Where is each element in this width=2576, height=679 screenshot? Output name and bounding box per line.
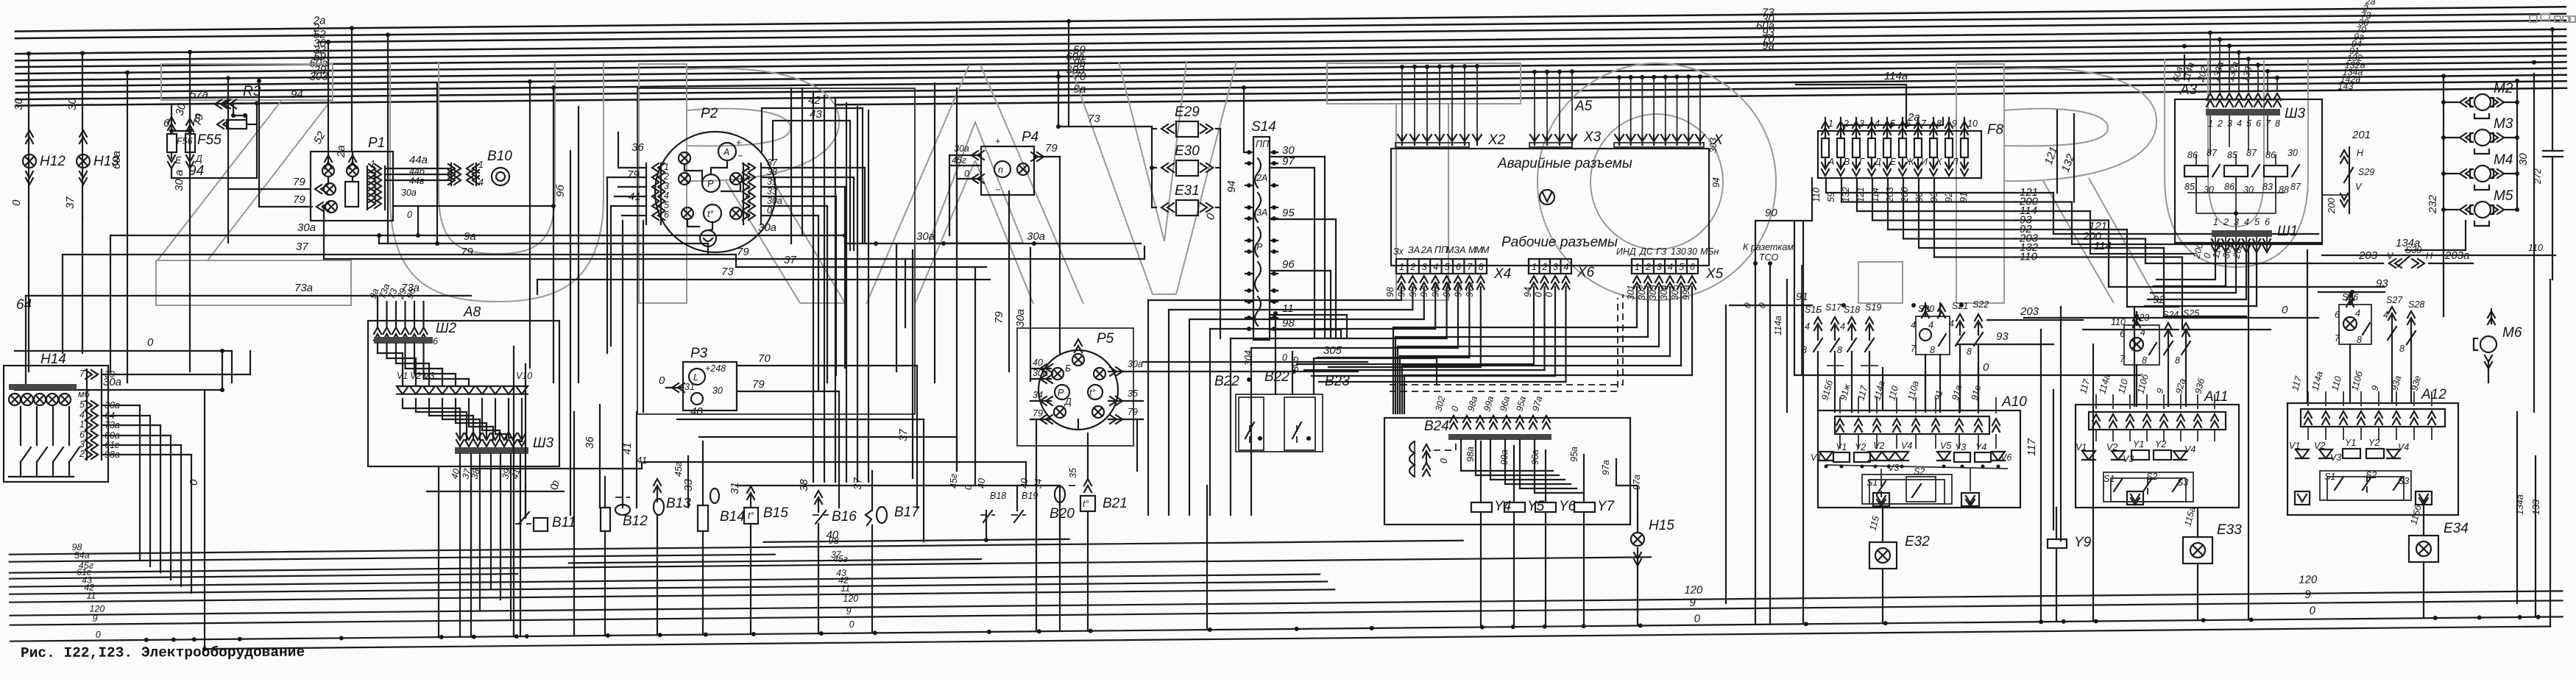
bus wire 70 xyxy=(16,68,2566,93)
svg-text:V1: V1 xyxy=(2289,441,2300,451)
svg-text:30а: 30а xyxy=(916,230,935,243)
svg-text:9а: 9а xyxy=(464,230,476,243)
svg-text:S27: S27 xyxy=(2386,295,2403,305)
switch R3 xyxy=(215,100,227,109)
svg-text:130: 130 xyxy=(1671,246,1686,257)
A10 switches S1 S2 xyxy=(1877,481,1886,494)
svg-text:К: К xyxy=(1936,157,1942,167)
svg-text:4: 4 xyxy=(478,177,484,188)
svg-text:t°: t° xyxy=(1083,499,1089,509)
svg-text:4: 4 xyxy=(1928,320,1933,330)
bottom bus wire 61г xyxy=(10,574,517,579)
svg-text:143: 143 xyxy=(2338,81,2353,91)
svg-text:99а: 99а xyxy=(1681,285,1691,300)
svg-text:133: 133 xyxy=(2531,500,2541,515)
svg-text:8: 8 xyxy=(2275,118,2280,129)
svg-text:F55: F55 xyxy=(197,132,222,148)
svg-text:79: 79 xyxy=(1033,408,1043,419)
svg-text:А: А xyxy=(723,147,729,157)
wire H12 drop xyxy=(28,54,29,221)
svg-text:n: n xyxy=(998,165,1003,175)
svg-text:S19: S19 xyxy=(1865,302,1881,313)
svg-text:В19: В19 xyxy=(1022,491,1038,501)
svg-text:8: 8 xyxy=(1967,346,1972,357)
svg-text:S18: S18 xyxy=(1844,305,1860,315)
svg-text:V3: V3 xyxy=(2123,454,2134,464)
svg-text:6: 6 xyxy=(1906,118,1911,129)
switch S27 xyxy=(2388,307,2396,320)
wire 0 left xyxy=(15,350,232,352)
svg-text:S2: S2 xyxy=(1914,466,1925,477)
svg-text:6: 6 xyxy=(1456,262,1461,272)
svg-text:Н14: Н14 xyxy=(40,352,66,367)
bottom bus wire 45г xyxy=(10,557,1651,572)
svg-text:40: 40 xyxy=(1033,358,1043,368)
svg-text:Y1: Y1 xyxy=(1836,442,1847,452)
bottom bus wire 40 xyxy=(764,539,1069,542)
bus wire 91 xyxy=(837,88,2566,105)
svg-text:0: 0 xyxy=(2282,304,2288,316)
wire 110 right xyxy=(2322,255,2555,256)
svg-text:3: 3 xyxy=(79,439,85,449)
svg-text:0: 0 xyxy=(548,483,561,490)
svg-text:Ш3: Ш3 xyxy=(2285,106,2305,121)
svg-text:0: 0 xyxy=(767,205,772,216)
svg-text:95а: 95а xyxy=(1569,447,1579,462)
dashed loom to B24 xyxy=(1390,294,1623,385)
bus wire 52 xyxy=(319,21,2566,42)
svg-text:70: 70 xyxy=(758,352,771,365)
wire 91 line xyxy=(1730,305,1812,306)
wire 30a long xyxy=(110,235,845,236)
svg-text:В12: В12 xyxy=(623,513,648,529)
svg-text:Y4: Y4 xyxy=(1975,442,1986,452)
A12 connector bar xyxy=(2301,409,2445,427)
svg-text:МБн: МБн xyxy=(1700,246,1719,257)
wires 0 0 verticals xyxy=(1755,221,1756,625)
P2 wiring maze xyxy=(711,160,727,174)
svg-text:301: 301 xyxy=(1626,285,1636,300)
wire 37 left vertical xyxy=(82,217,83,353)
svg-text:9а: 9а xyxy=(1762,40,1774,52)
wire 30a left vertical xyxy=(28,217,29,372)
svg-text:30а: 30а xyxy=(1128,359,1143,369)
svg-text:0: 0 xyxy=(188,479,200,486)
svg-text:44б: 44б xyxy=(409,166,425,177)
svg-text:303: 303 xyxy=(1648,285,1658,300)
svg-text:4: 4 xyxy=(2244,217,2249,227)
svg-text:83: 83 xyxy=(2262,182,2273,192)
wire 2a drop xyxy=(351,28,353,152)
wire 0 long xyxy=(1794,374,2140,376)
svg-text:97: 97 xyxy=(1282,155,1295,168)
svg-text:2: 2 xyxy=(1843,118,1849,129)
connector Sh3 top xyxy=(2206,109,2280,115)
watermark letter R second xyxy=(1956,64,2004,303)
svg-text:ТСО: ТСО xyxy=(1759,252,1779,263)
svg-text:120: 120 xyxy=(89,603,105,614)
svg-text:36: 36 xyxy=(631,141,644,154)
svg-text:0: 0 xyxy=(1282,352,1287,363)
lamp E32 xyxy=(1882,506,1883,542)
wires below Sh3 xyxy=(459,454,461,637)
svg-text:Х6: Х6 xyxy=(1577,265,1595,280)
svg-text:30а: 30а xyxy=(1027,230,1045,243)
switch B14 xyxy=(698,505,708,531)
bus wire 59 xyxy=(15,43,2566,67)
wire bundle center verticals xyxy=(813,92,814,449)
svg-text:5: 5 xyxy=(1679,262,1684,272)
svg-text:98а: 98а xyxy=(1465,447,1476,462)
wire 79 long xyxy=(324,258,1144,260)
connector X2 pins xyxy=(1398,135,1406,145)
svg-text:Y3: Y3 xyxy=(1955,442,1966,452)
switch B11 xyxy=(515,523,531,525)
svg-text:37: 37 xyxy=(897,429,910,441)
svg-text:В22: В22 xyxy=(1264,369,1289,385)
svg-text:79: 79 xyxy=(293,176,305,188)
wire vertical x594 xyxy=(436,82,438,243)
svg-text:7: 7 xyxy=(1467,262,1473,272)
X4 fan wires xyxy=(1401,287,1402,300)
svg-text:73: 73 xyxy=(721,266,734,278)
B24 inner wires xyxy=(1460,440,1462,471)
ammeter A xyxy=(718,143,736,160)
svg-text:203: 203 xyxy=(1885,187,1895,203)
svg-text:30: 30 xyxy=(2287,148,2298,158)
connector X pins right xyxy=(1615,135,1624,145)
P2 lamps xyxy=(679,152,690,164)
svg-text:305: 305 xyxy=(1290,356,1301,372)
svg-text:МЗА: МЗА xyxy=(1446,245,1465,255)
svg-text:8: 8 xyxy=(1936,118,1942,129)
svg-text:Б: Б xyxy=(1065,363,1071,374)
svg-text:4: 4 xyxy=(1805,321,1810,332)
svg-text:Y1: Y1 xyxy=(2345,438,2356,448)
svg-text:86: 86 xyxy=(2265,150,2276,160)
S14 internal contacts xyxy=(1255,158,1261,188)
svg-text:93: 93 xyxy=(1996,330,2009,343)
A11 output arrow xyxy=(2127,491,2143,505)
svg-text:91: 91 xyxy=(1796,291,1808,303)
svg-text:−: − xyxy=(995,185,1000,195)
svg-text:Ш2: Ш2 xyxy=(436,321,456,336)
svg-text:Н12: Н12 xyxy=(40,154,66,169)
bus wire 60а xyxy=(15,49,2566,74)
svg-text:2: 2 xyxy=(79,449,85,459)
watermark letter V xyxy=(1069,62,1153,294)
svg-text:4: 4 xyxy=(1564,262,1569,272)
svg-text:3: 3 xyxy=(1657,262,1662,272)
svg-text:2: 2 xyxy=(745,171,751,182)
X5 drop wires xyxy=(1636,287,1638,327)
svg-text:ДС: ДС xyxy=(1638,246,1654,257)
watermark letter A xyxy=(866,65,969,304)
svg-text:114: 114 xyxy=(2094,240,2112,252)
svg-text:Д: Д xyxy=(194,154,202,164)
A10 nested wire loops xyxy=(1862,474,1952,504)
svg-text:37: 37 xyxy=(784,254,796,266)
svg-text:4: 4 xyxy=(746,191,751,201)
switch S24 xyxy=(2165,323,2172,336)
watermark letter U second xyxy=(2165,59,2308,267)
bus wire 9а xyxy=(16,81,2566,105)
svg-text:232: 232 xyxy=(2427,194,2439,214)
P5 lamps xyxy=(1072,354,1084,366)
svg-text:И: И xyxy=(1921,157,1928,167)
fuse block F8 box xyxy=(1818,131,1981,178)
svg-text:305: 305 xyxy=(1670,285,1680,300)
relay P4 box xyxy=(981,146,1034,195)
svg-text:79: 79 xyxy=(461,246,473,258)
svg-text:4: 4 xyxy=(1668,262,1673,272)
svg-text:4: 4 xyxy=(1840,321,1845,332)
switch S18 xyxy=(1848,317,1855,330)
svg-text:9: 9 xyxy=(846,606,851,616)
svg-text:30а: 30а xyxy=(297,221,316,234)
svg-text:Рабочие разъемы: Рабочие разъемы xyxy=(1501,235,1618,250)
svg-text:8: 8 xyxy=(2357,335,2362,345)
A11 connector bar xyxy=(2089,412,2226,430)
diode outputs xyxy=(402,399,403,408)
svg-text:V4: V4 xyxy=(2398,442,2409,452)
gauge P xyxy=(702,174,720,192)
wire 94 fuse link xyxy=(171,169,172,178)
svg-text:А3: А3 xyxy=(2179,82,2198,98)
motor M2 xyxy=(2444,102,2458,103)
svg-text:К разеткам: К разеткам xyxy=(1743,242,1794,252)
svg-text:43: 43 xyxy=(810,108,822,121)
wire 37 long xyxy=(63,254,736,255)
svg-text:7: 7 xyxy=(2335,333,2340,344)
svg-text:0: 0 xyxy=(147,336,154,349)
svg-text:t°: t° xyxy=(748,511,754,521)
P2 left wires xyxy=(618,167,646,168)
switch S14 body xyxy=(1253,137,1270,340)
svg-text:110: 110 xyxy=(2528,243,2543,253)
wire 9a xyxy=(379,243,708,244)
svg-text:98: 98 xyxy=(1385,287,1395,297)
svg-text:6: 6 xyxy=(664,210,669,220)
wire 44a xyxy=(385,168,451,169)
switch B18 xyxy=(980,514,995,516)
svg-text:Р: Р xyxy=(1256,242,1263,252)
relay P1 coil xyxy=(345,182,358,207)
svg-text:М2: М2 xyxy=(2494,81,2513,96)
svg-text:В15: В15 xyxy=(763,505,788,521)
A10 output arrows xyxy=(1873,493,1889,506)
bottom bus wire 43 xyxy=(10,575,1320,587)
switch B12 xyxy=(601,508,610,531)
wire 30a vertical x1400 xyxy=(1030,248,1031,381)
svg-text:73а: 73а xyxy=(294,282,313,294)
wire 90 xyxy=(1755,220,1812,221)
svg-text:34: 34 xyxy=(1033,390,1043,400)
fuse F56 xyxy=(171,104,172,134)
connector P2 right xyxy=(743,163,744,224)
svg-text:В14: В14 xyxy=(720,509,745,525)
wire 2a drop x1452 xyxy=(1068,21,1069,127)
svg-text:0: 0 xyxy=(2310,605,2316,617)
wire 305 xyxy=(1314,358,1437,359)
svg-text:М5: М5 xyxy=(2494,188,2513,204)
svg-text:5: 5 xyxy=(664,200,669,210)
A12 components xyxy=(2296,449,2309,458)
svg-text:Х5: Х5 xyxy=(1705,266,1724,282)
bus wire 30 xyxy=(15,29,2566,54)
svg-text:3: 3 xyxy=(1553,262,1558,272)
P3 small circle xyxy=(691,393,703,405)
svg-text:304: 304 xyxy=(1659,285,1669,300)
svg-text:10: 10 xyxy=(1967,118,1978,129)
connector Sh2 xyxy=(374,327,381,341)
svg-text:9: 9 xyxy=(1952,118,1957,129)
wire H13 drop xyxy=(82,53,83,221)
svg-text:0: 0 xyxy=(964,168,969,179)
motor M6 xyxy=(2491,309,2492,324)
bus wire 2 xyxy=(15,14,2566,38)
switch B15 xyxy=(744,508,758,524)
connector P2 left xyxy=(645,163,647,224)
svg-text:2: 2 xyxy=(1645,262,1651,272)
M bus verticals xyxy=(2443,76,2444,316)
svg-text:203: 203 xyxy=(2020,305,2039,318)
svg-text:5: 5 xyxy=(1890,118,1895,129)
heater E31 xyxy=(1176,200,1198,216)
svg-text:Е31: Е31 xyxy=(1175,183,1200,199)
svg-text:S22: S22 xyxy=(1972,299,1989,310)
svg-text:Е: Е xyxy=(175,155,182,166)
A11 switches xyxy=(2114,478,2123,491)
svg-text:Ш1: Ш1 xyxy=(2277,224,2298,239)
svg-text:М: М xyxy=(1482,245,1490,255)
svg-text:S1: S1 xyxy=(2103,474,2115,484)
svg-text:31: 31 xyxy=(684,382,695,392)
bottom bus wire 120 xyxy=(10,591,2563,615)
extra mid horizontals xyxy=(699,436,957,438)
svg-text:42: 42 xyxy=(808,94,821,107)
svg-text:201: 201 xyxy=(2352,129,2371,141)
wire 44v xyxy=(385,179,451,181)
svg-text:11: 11 xyxy=(86,591,96,601)
svg-text:40: 40 xyxy=(690,405,703,418)
svg-text:3: 3 xyxy=(664,181,669,191)
svg-text:0: 0 xyxy=(1439,458,1449,463)
connector X4 xyxy=(1396,259,1487,274)
bus wire 29 xyxy=(16,56,2566,80)
P5 right wires xyxy=(1108,371,1143,372)
svg-text:V1: V1 xyxy=(1811,452,1822,463)
wire 114a vertical xyxy=(1786,280,1788,412)
svg-text:0: 0 xyxy=(407,210,412,220)
block A10 box xyxy=(1818,410,2020,508)
bottom bus wire 37 xyxy=(569,559,981,563)
A11 components xyxy=(2082,451,2095,460)
wire bundle verticals left-mid xyxy=(513,346,514,636)
svg-text:1: 1 xyxy=(746,162,751,172)
wire 73 long xyxy=(537,279,990,280)
connector Sh1 xyxy=(2212,230,2272,237)
svg-text:М3: М3 xyxy=(2494,116,2513,132)
svg-text:120: 120 xyxy=(2299,574,2318,586)
switch S28 xyxy=(2407,311,2415,324)
svg-text:6: 6 xyxy=(433,336,438,346)
fuse F55 xyxy=(189,104,191,134)
svg-text:S28: S28 xyxy=(2408,299,2424,310)
svg-text:0: 0 xyxy=(849,619,854,630)
svg-text:V1: V1 xyxy=(2076,442,2087,452)
svg-text:114а: 114а xyxy=(1884,70,1908,82)
bus wire 2а xyxy=(15,7,2566,31)
svg-text:Ж: Ж xyxy=(1905,157,1915,167)
svg-text:S21: S21 xyxy=(1952,301,1968,311)
svg-text:8: 8 xyxy=(2399,344,2405,354)
svg-text:F56: F56 xyxy=(177,136,193,146)
solenoid Y4 xyxy=(1471,502,1492,512)
connector P1 pins xyxy=(367,166,368,210)
svg-text:V10: V10 xyxy=(516,371,532,381)
svg-text:85: 85 xyxy=(2227,150,2237,160)
svg-text:79: 79 xyxy=(1128,407,1138,417)
svg-text:11: 11 xyxy=(841,583,850,594)
svg-text:S3: S3 xyxy=(2177,477,2188,488)
svg-text:В24: В24 xyxy=(1424,419,1449,434)
svg-text:1: 1 xyxy=(1399,262,1404,272)
svg-text:Е29: Е29 xyxy=(1175,104,1200,120)
svg-text:79: 79 xyxy=(293,193,305,206)
svg-text:8: 8 xyxy=(1479,262,1484,272)
svg-text:37: 37 xyxy=(296,241,308,253)
wire 132 vertical drop xyxy=(2073,114,2075,202)
switch B21 xyxy=(1080,496,1095,511)
A11 nested wire loops xyxy=(2103,472,2193,502)
svg-text:S14: S14 xyxy=(1251,119,1276,135)
wire 44b xyxy=(385,174,451,175)
svg-text:96а: 96а xyxy=(1530,449,1540,465)
gauge t xyxy=(704,205,721,222)
svg-text:Е32: Е32 xyxy=(1905,534,1930,550)
P4 wires xyxy=(949,154,981,156)
svg-text:4: 4 xyxy=(2355,308,2360,319)
svg-text:ЗА: ЗА xyxy=(1408,245,1420,255)
B24 connector bar xyxy=(1448,434,1551,440)
wire 0 line right xyxy=(2024,317,2318,319)
svg-text:305: 305 xyxy=(1323,344,1342,357)
svg-text:t°: t° xyxy=(707,209,713,219)
svg-text:6: 6 xyxy=(2256,118,2261,129)
wire vertical x310 xyxy=(227,78,229,243)
B24 coil xyxy=(1409,441,1415,477)
svg-text:134а: 134а xyxy=(2515,494,2525,515)
P3 L gauge xyxy=(689,369,705,385)
F8 staircase wires xyxy=(1825,178,1827,193)
bottom bus wire 42 xyxy=(10,582,1327,594)
svg-text:97а: 97а xyxy=(1601,460,1611,475)
solenoid Y9 xyxy=(2048,539,2067,548)
svg-text:5: 5 xyxy=(2254,217,2260,227)
svg-text:30а: 30а xyxy=(767,196,782,206)
wire 121 vertical drop xyxy=(2056,110,2058,193)
svg-text:94: 94 xyxy=(188,163,204,179)
svg-text:L: L xyxy=(693,372,698,383)
assorted verticals right-mid xyxy=(1725,305,1727,603)
block A8 box xyxy=(368,321,559,466)
lamp E33 xyxy=(2197,508,2198,537)
svg-text:85: 85 xyxy=(2184,182,2195,192)
extra mid verticals xyxy=(896,243,897,372)
svg-text:−: − xyxy=(737,151,743,161)
91-line junction dots xyxy=(1841,303,1846,307)
